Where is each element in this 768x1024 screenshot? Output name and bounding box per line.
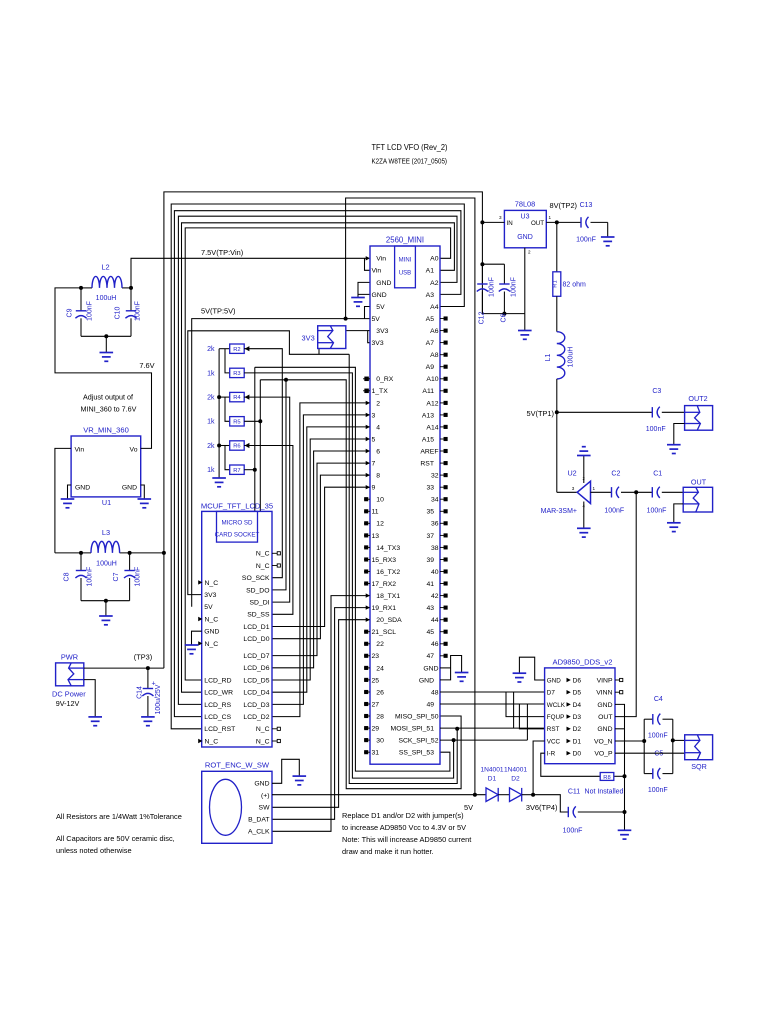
svg-text:43: 43 <box>426 605 434 612</box>
svg-text:44: 44 <box>431 617 439 624</box>
svg-text:VCC: VCC <box>547 738 561 745</box>
svg-text:RST: RST <box>547 726 560 733</box>
svg-text:82 ohm: 82 ohm <box>563 281 587 288</box>
svg-text:41: 41 <box>426 581 434 588</box>
svg-text:SW: SW <box>259 805 271 812</box>
svg-text:12: 12 <box>376 521 384 528</box>
svg-text:GND: GND <box>372 292 387 299</box>
svg-text:A7: A7 <box>426 340 435 347</box>
svg-text:100nF: 100nF <box>648 787 668 794</box>
wire U1 Vo 7.6V rail to L2 <box>55 288 152 449</box>
svg-text:R2: R2 <box>233 347 240 353</box>
ground AD9850 <box>513 672 527 674</box>
micro sd card socket box <box>217 511 258 542</box>
svg-text:1k: 1k <box>207 370 215 377</box>
ground 2560 right <box>455 672 469 674</box>
svg-text:13: 13 <box>372 533 380 540</box>
svg-text:2: 2 <box>376 400 380 407</box>
svg-text:N_C: N_C <box>205 616 219 623</box>
capacitor C6 <box>503 264 505 284</box>
svg-text:OUT: OUT <box>598 714 612 721</box>
svg-text:5V: 5V <box>204 604 213 611</box>
wire MISO_SPI_50 run to SD_DO <box>260 380 461 789</box>
svg-text:A4: A4 <box>430 304 439 311</box>
svg-text:SQR: SQR <box>691 762 707 771</box>
svg-text:A9: A9 <box>426 364 435 371</box>
svg-text:LCD_RST: LCD_RST <box>204 726 235 733</box>
ground C14 <box>141 716 155 718</box>
svg-text:3V3: 3V3 <box>372 340 384 347</box>
connector OUT <box>683 487 712 512</box>
svg-text:34: 34 <box>431 497 439 504</box>
wire 5V rail nest line <box>346 198 475 795</box>
wire A2 to LCD_RS <box>178 216 457 704</box>
svg-text:L1: L1 <box>545 354 552 362</box>
svg-text:U2: U2 <box>567 469 576 478</box>
svg-text:100nF: 100nF <box>135 301 142 321</box>
wire 49 to RST and WCLK row <box>440 703 545 705</box>
svg-text:18_TX1: 18_TX1 <box>376 593 400 600</box>
wire PWR bottom pin to ground <box>84 680 95 717</box>
wire R1 to L1 <box>556 296 558 331</box>
resistor R6 <box>219 445 230 447</box>
wire 3V3 drop to MOSI wrap <box>349 354 457 783</box>
svg-text:SS_SPI_53: SS_SPI_53 <box>399 750 434 757</box>
svg-text:0_RX: 0_RX <box>376 376 393 383</box>
svg-text:A3: A3 <box>426 292 435 299</box>
svg-text:8: 8 <box>376 473 380 480</box>
wire 2560 pin 2 to LCD data <box>272 403 370 717</box>
svg-text:R3: R3 <box>233 371 240 377</box>
svg-text:GND: GND <box>122 485 137 492</box>
wire C8 C7 bottoms <box>81 600 130 602</box>
svg-text:GND: GND <box>254 781 269 788</box>
svg-text:100nF: 100nF <box>135 567 142 587</box>
wire SS_SPI_53 wrap run <box>255 367 450 771</box>
svg-text:100nF: 100nF <box>646 426 666 433</box>
wire C4 arm <box>643 719 645 773</box>
ground bottom rail <box>618 829 632 831</box>
wire SQR top pin <box>673 739 685 741</box>
svg-text:B_DAT: B_DAT <box>248 817 269 824</box>
svg-text:28: 28 <box>376 713 384 720</box>
svg-text:33: 33 <box>426 485 434 492</box>
wire L1 to 5V TP1 node <box>556 379 558 412</box>
svg-text:GND: GND <box>597 726 612 733</box>
wire R6 to SD_SS <box>244 446 293 615</box>
svg-text:N_C: N_C <box>256 551 270 558</box>
ground PWR <box>88 716 102 718</box>
svg-text:1: 1 <box>593 486 596 491</box>
svg-text:2k: 2k <box>207 346 215 353</box>
encoder block ROT_ENC_W_SW <box>202 771 272 843</box>
svg-text:(TP3): (TP3) <box>134 653 152 662</box>
svg-text:TFT LCD VFO (Rev_2): TFT LCD VFO (Rev_2) <box>372 142 448 152</box>
wire MOSI_SPI_51 to D7 riser <box>440 727 545 729</box>
svg-text:2: 2 <box>528 250 531 255</box>
svg-text:5V: 5V <box>372 316 381 323</box>
svg-text:D2: D2 <box>573 726 582 733</box>
wire U3 OUT 8V rail <box>546 221 581 223</box>
svg-text:D5: D5 <box>573 690 582 697</box>
wire C12 C6 tops <box>482 263 504 265</box>
svg-text:100nF: 100nF <box>604 508 624 515</box>
svg-text:MINI_360 to 7.6V: MINI_360 to 7.6V <box>81 405 137 414</box>
wire U2 top to inverted ground <box>583 456 585 484</box>
svg-text:9V-12V: 9V-12V <box>56 699 80 708</box>
svg-text:CARD SOCKET: CARD SOCKET <box>215 532 260 539</box>
AD9850 inner pin D2 <box>567 727 571 731</box>
svg-text:Vin: Vin <box>75 447 85 454</box>
AD9850 inner pin D6 <box>567 678 571 682</box>
svg-text:A2: A2 <box>430 280 439 287</box>
dds block AD9850_DDS_v2 <box>545 668 615 764</box>
svg-text:2560_MINI: 2560_MINI <box>386 236 424 245</box>
resistor R1 82 ohm <box>553 272 561 297</box>
svg-text:5V: 5V <box>464 803 473 812</box>
svg-text:GND: GND <box>517 234 533 241</box>
capacitor C3 <box>651 407 653 417</box>
svg-text:30: 30 <box>376 738 384 745</box>
svg-text:D6: D6 <box>573 677 582 684</box>
wire VO_N to C4/C5 bridge <box>615 740 644 742</box>
wire 5V diode line <box>272 794 486 796</box>
svg-text:AREF: AREF <box>420 448 438 455</box>
connector 3V3 jumper <box>318 326 346 349</box>
wire U1 GND left to ground <box>68 485 72 499</box>
svg-text:All Capacitors are 50V ceramic: All Capacitors are 50V ceramic disc, <box>56 834 175 843</box>
svg-text:1N4001: 1N4001 <box>480 766 503 773</box>
capacitor C2 <box>611 487 613 497</box>
wire 48 to FQUP and D7 row <box>440 691 545 693</box>
wire R4 to SD_DI <box>244 397 290 602</box>
svg-text:MCUF_TFT_LCD_35: MCUF_TFT_LCD_35 <box>201 501 273 510</box>
wire MCUF GND to ground <box>192 631 202 645</box>
wire 5V TP1 to C3 <box>557 411 653 413</box>
svg-text:OUT2: OUT2 <box>688 394 707 403</box>
capacitor C7 <box>129 553 131 571</box>
wire R3 to SCK_SPI_52 wrap <box>244 373 453 778</box>
svg-text:22: 22 <box>376 641 384 648</box>
wire 2560 pin 4 to LCD data <box>272 427 370 692</box>
svg-text:N_C: N_C <box>256 563 270 570</box>
svg-text:RST: RST <box>420 461 434 468</box>
svg-text:LCD_RS: LCD_RS <box>204 702 231 709</box>
svg-text:23: 23 <box>372 653 380 660</box>
svg-text:GND: GND <box>419 677 434 684</box>
wire OUT2 bottom pin to ground <box>674 424 685 445</box>
ground C12 C6 <box>518 330 532 332</box>
wire I-R through R8 to ground rail <box>541 753 600 776</box>
svg-text:R7: R7 <box>233 468 240 474</box>
svg-text:17_RX2: 17_RX2 <box>372 581 397 588</box>
svg-text:24: 24 <box>376 665 384 672</box>
wire A3 to LCD_CS <box>174 211 461 717</box>
svg-text:9: 9 <box>372 485 376 492</box>
svg-text:100nF: 100nF <box>563 828 583 835</box>
svg-text:Adjust output of: Adjust output of <box>83 393 133 402</box>
mini usb box <box>395 246 416 288</box>
connector PWR DC power jack <box>56 663 84 686</box>
svg-text:11: 11 <box>372 509 379 516</box>
svg-text:R8: R8 <box>603 775 610 781</box>
svg-text:USB: USB <box>399 271 411 277</box>
svg-text:38: 38 <box>431 545 439 552</box>
capacitor C10 <box>130 288 132 311</box>
wire 2560 pin 5 to LCD data <box>272 439 370 680</box>
svg-text:K2ZA W8TEE (2017_0505): K2ZA W8TEE (2017_0505) <box>372 159 448 166</box>
wire SCK_SPI_52 to WCLK riser <box>440 739 527 741</box>
svg-text:R1: R1 <box>552 280 558 287</box>
svg-text:3: 3 <box>499 215 502 220</box>
svg-text:GND: GND <box>376 280 391 287</box>
ground encoder <box>293 775 307 777</box>
wire 7.5V rail to Vin <box>131 258 367 288</box>
svg-text:C8: C8 <box>64 572 71 581</box>
svg-text:VINN: VINN <box>596 690 612 697</box>
svg-text:40: 40 <box>431 569 439 576</box>
svg-text:LCD_D1: LCD_D1 <box>243 624 269 631</box>
svg-text:MISO_SPI_50: MISO_SPI_50 <box>395 713 439 720</box>
ground resistor bank <box>212 477 226 479</box>
wire 3V6 line through C11 to ground rail <box>522 794 533 796</box>
svg-text:R5: R5 <box>233 419 240 425</box>
resistor R7 <box>225 446 230 470</box>
svg-text:C5: C5 <box>654 751 663 758</box>
svg-text:IN: IN <box>507 220 513 227</box>
svg-text:A1: A1 <box>426 268 435 275</box>
svg-text:3V3: 3V3 <box>376 328 388 335</box>
wire pin 19_RX1 to B_DAT <box>272 608 370 820</box>
svg-text:5: 5 <box>372 436 376 443</box>
AD9850 inner pin D0 <box>567 751 571 755</box>
svg-text:1k: 1k <box>207 467 215 474</box>
ground U2 top inverted <box>577 455 591 457</box>
wire 5V rail down to U2 <box>556 412 558 492</box>
ground OUT <box>667 522 681 524</box>
svg-text:Not Installed: Not Installed <box>585 788 624 795</box>
svg-text:7.6V: 7.6V <box>139 361 154 370</box>
wire C12 C6 bottom rail <box>482 313 524 315</box>
svg-text:C13: C13 <box>580 202 593 209</box>
wire V+ rail from PWR to U3 IN (top outer nest line) <box>164 192 483 668</box>
svg-text:FQUP: FQUP <box>547 714 565 721</box>
svg-text:LCD_CS: LCD_CS <box>204 714 231 721</box>
resistor R4 <box>219 396 230 398</box>
wire 3V3 jumper right pin to 3V3 pins <box>346 331 370 343</box>
ground L2 filter <box>100 352 114 354</box>
svg-text:(+): (+) <box>261 793 270 800</box>
svg-text:Replace D1 and/or D2 with jump: Replace D1 and/or D2 with jumper(s) <box>342 811 464 820</box>
wire U1 Vin from L3 node <box>55 448 71 553</box>
svg-text:78L08: 78L08 <box>515 199 536 208</box>
svg-text:D1: D1 <box>573 738 582 745</box>
wire GND pins to ground <box>358 282 370 294</box>
svg-text:LCD_D2: LCD_D2 <box>243 714 269 721</box>
svg-text:A13: A13 <box>422 412 434 419</box>
svg-text:3V3: 3V3 <box>302 334 315 343</box>
svg-text:GND: GND <box>204 629 219 636</box>
svg-text:N_C: N_C <box>256 726 270 733</box>
svg-text:A6: A6 <box>430 328 439 335</box>
svg-text:48: 48 <box>431 689 439 696</box>
capacitor C12 <box>481 264 483 284</box>
svg-text:32: 32 <box>431 473 439 480</box>
svg-text:14_TX3: 14_TX3 <box>376 545 400 552</box>
svg-text:MICRO SD: MICRO SD <box>222 520 253 527</box>
svg-text:MOSI_SPI_51: MOSI_SPI_51 <box>391 726 435 733</box>
svg-text:ROT_ENC_W_SW: ROT_ENC_W_SW <box>205 761 270 770</box>
svg-text:26: 26 <box>376 689 384 696</box>
svg-text:31: 31 <box>372 750 380 757</box>
svg-text:19_RX1: 19_RX1 <box>372 605 397 612</box>
svg-text:OUT: OUT <box>531 220 544 227</box>
svg-text:R6: R6 <box>233 444 240 450</box>
svg-text:C12: C12 <box>479 311 486 324</box>
wire U1 GND right to ground <box>141 485 145 499</box>
svg-text:D2: D2 <box>511 776 520 783</box>
AD9850 inner pin D1 <box>567 739 571 743</box>
svg-text:100nF: 100nF <box>489 277 496 297</box>
svg-text:PWR: PWR <box>61 653 78 662</box>
svg-text:SD_DO: SD_DO <box>246 587 269 594</box>
wire pin 20_SDA to SW <box>272 620 370 808</box>
capacitor C4 <box>652 714 654 724</box>
svg-text:C2: C2 <box>611 471 620 478</box>
wire OUT bottom pin to ground <box>674 504 683 523</box>
ground U1 left <box>61 498 75 500</box>
svg-text:VINP: VINP <box>597 677 613 684</box>
svg-text:100nF: 100nF <box>648 733 668 740</box>
svg-text:unless noted otherwise: unless noted otherwise <box>56 846 132 855</box>
svg-text:3V3: 3V3 <box>204 592 216 599</box>
wire 2560 right GND pins to ground <box>440 656 462 680</box>
connector SQR <box>685 735 713 760</box>
wire 2560 pin 7 to LCD data <box>272 463 370 655</box>
wire R2 to SO_SCK <box>244 349 282 578</box>
svg-text:D3: D3 <box>573 714 582 721</box>
svg-text:D7: D7 <box>547 690 556 697</box>
svg-text:3: 3 <box>372 412 376 419</box>
mcu block 2560_MINI <box>370 246 440 764</box>
svg-text:35: 35 <box>426 509 434 516</box>
svg-text:C4: C4 <box>654 696 663 703</box>
capacitor C13 <box>580 217 582 227</box>
svg-text:1: 1 <box>549 215 552 220</box>
AD9850 inner pin D5 <box>567 690 571 694</box>
svg-text:100u/25V: 100u/25V <box>155 684 162 714</box>
svg-text:C3: C3 <box>652 388 661 395</box>
svg-text:A10: A10 <box>426 376 438 383</box>
svg-text:3V6(TP4): 3V6(TP4) <box>526 803 558 812</box>
svg-text:AD9850_DDS_v2: AD9850_DDS_v2 <box>553 657 613 666</box>
wire VO_P to SQR <box>615 752 685 754</box>
svg-text:5V: 5V <box>376 304 385 311</box>
svg-text:A14: A14 <box>426 424 438 431</box>
svg-text:100uH: 100uH <box>568 347 575 368</box>
wire 5V pin pair bracket <box>365 307 371 319</box>
svg-text:SO_SCK: SO_SCK <box>242 575 270 582</box>
svg-text:5V(TP1): 5V(TP1) <box>526 409 554 418</box>
wire A4 to LCD_RST <box>171 204 464 729</box>
svg-text:20_SDA: 20_SDA <box>376 617 402 624</box>
resistor R3 <box>225 349 230 373</box>
wire U2 out to C2 <box>591 491 612 493</box>
svg-text:3: 3 <box>572 486 575 491</box>
svg-text:1_TX: 1_TX <box>372 388 389 395</box>
svg-text:4: 4 <box>376 424 380 431</box>
svg-text:15_RX3: 15_RX3 <box>372 557 397 564</box>
svg-text:C14: C14 <box>137 686 144 699</box>
ground 2560 left GND <box>351 297 365 299</box>
wire 2560 pin 3 to LCD data <box>272 415 370 705</box>
wire U3 IN tap <box>482 221 504 223</box>
wire pin 18_TX1 to A_CLK <box>272 596 370 832</box>
svg-text:GND: GND <box>75 485 90 492</box>
svg-text:A0: A0 <box>430 256 439 263</box>
capacitor C9 <box>80 288 82 311</box>
svg-text:C1: C1 <box>653 471 662 478</box>
wire 8V rail down to R1 <box>556 222 558 271</box>
regulator U3 78L08 <box>504 210 546 247</box>
svg-text:L2: L2 <box>101 263 109 272</box>
svg-text:100uH: 100uH <box>96 295 117 302</box>
inductor L1 <box>557 332 565 379</box>
svg-text:I-R: I-R <box>547 751 556 758</box>
wire U3 GND pin down <box>524 248 526 314</box>
svg-text:LCD_WR: LCD_WR <box>204 690 233 697</box>
svg-text:49: 49 <box>426 701 434 708</box>
svg-text:L3: L3 <box>102 528 110 537</box>
ground U1 right <box>138 498 152 500</box>
svg-text:to increase AD9850 Vcc to 4.3V: to increase AD9850 Vcc to 4.3V or 5V <box>342 823 466 832</box>
svg-text:C10: C10 <box>115 306 122 319</box>
svg-text:WCLK: WCLK <box>547 702 566 709</box>
lcd block MCUF_TFT_LCD_35 <box>202 511 272 747</box>
svg-text:100nF: 100nF <box>87 567 94 587</box>
svg-text:R4: R4 <box>233 395 241 401</box>
MCUF left pin N_C <box>198 641 202 645</box>
svg-text:N_C: N_C <box>205 738 219 745</box>
wire R5 MISO branch vertical <box>244 420 260 422</box>
capacitor C11 <box>567 807 569 817</box>
capacitor C14 electrolytic <box>147 668 149 688</box>
svg-text:LCD_D3: LCD_D3 <box>243 702 269 709</box>
svg-text:47: 47 <box>426 653 434 660</box>
wire AD9850 GND pin to ground <box>519 657 544 680</box>
capacitor C8 <box>80 553 82 571</box>
svg-text:Vo: Vo <box>130 447 138 454</box>
connector OUT2 <box>685 406 713 431</box>
svg-text:Vin: Vin <box>372 268 382 275</box>
diode D1 1N4001 <box>486 788 498 802</box>
svg-text:C11: C11 <box>568 788 580 795</box>
svg-text:29: 29 <box>372 726 380 733</box>
ground OUT2 <box>667 444 681 446</box>
svg-text:42: 42 <box>431 593 439 600</box>
svg-text:6: 6 <box>376 448 380 455</box>
AD9850 inner pin D3 <box>567 714 571 718</box>
wire PWR top pin to V+ rail <box>84 667 164 669</box>
svg-text:SD_SS: SD_SS <box>247 612 270 619</box>
svg-text:LCD_D0: LCD_D0 <box>243 636 269 643</box>
svg-text:39: 39 <box>426 557 434 564</box>
svg-text:LCD_D7: LCD_D7 <box>243 653 269 660</box>
svg-text:A12: A12 <box>426 400 438 407</box>
inductor L3 <box>55 552 91 554</box>
svg-text:A8: A8 <box>430 352 439 359</box>
svg-text:All Resistors are 1/4Watt 1%To: All Resistors are 1/4Watt 1%Tolerance <box>56 812 182 821</box>
